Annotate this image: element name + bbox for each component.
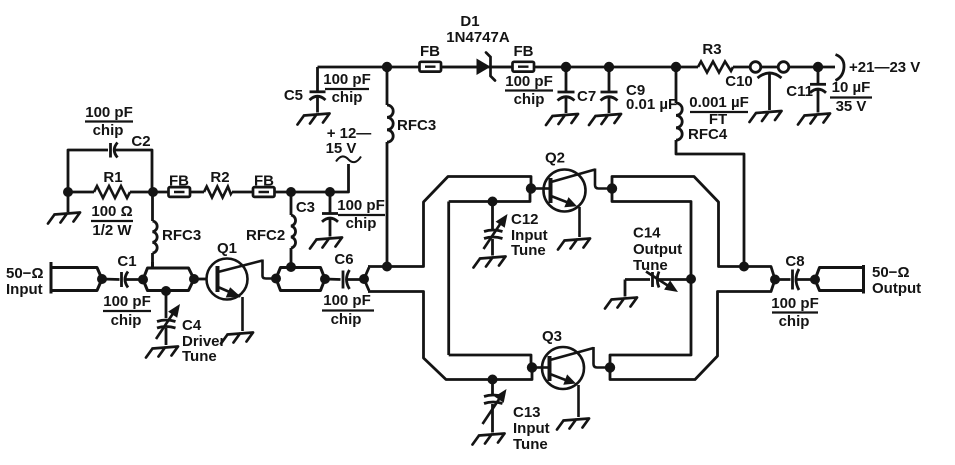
svg-text:FB: FB — [169, 173, 189, 190]
svg-text:100 pF: 100 pF — [771, 295, 819, 312]
svg-text:FB: FB — [254, 173, 274, 190]
svg-text:D1: D1 — [460, 13, 479, 30]
svg-text:chip: chip — [111, 312, 142, 329]
svg-text:Q2: Q2 — [545, 150, 565, 167]
svg-text:100 pF: 100 pF — [505, 73, 553, 90]
svg-text:1N4747A: 1N4747A — [446, 29, 510, 46]
svg-text:50−Ω: 50−Ω — [6, 265, 43, 282]
svg-text:Tune: Tune — [633, 257, 668, 274]
svg-text:C5: C5 — [284, 87, 303, 104]
svg-text:10 µF: 10 µF — [832, 79, 871, 96]
svg-text:chip: chip — [93, 122, 124, 139]
svg-text:100 pF: 100 pF — [337, 197, 385, 214]
svg-text:C11: C11 — [786, 83, 813, 100]
svg-text:C10: C10 — [725, 73, 753, 90]
svg-text:Output: Output — [872, 280, 921, 297]
svg-text:50−Ω: 50−Ω — [872, 264, 909, 281]
svg-text:35 V: 35 V — [836, 98, 867, 115]
svg-text:C12: C12 — [511, 211, 539, 228]
svg-text:C1: C1 — [117, 253, 136, 270]
svg-text:Input: Input — [6, 281, 43, 298]
svg-text:C6: C6 — [334, 251, 353, 268]
svg-text:+21—23 V: +21—23 V — [849, 59, 920, 76]
svg-text:chip: chip — [331, 311, 362, 328]
svg-text:Tune: Tune — [182, 348, 217, 365]
svg-text:R2: R2 — [210, 169, 229, 186]
svg-text:chip: chip — [332, 89, 363, 106]
svg-text:100 Ω: 100 Ω — [91, 203, 132, 220]
svg-text:100 pF: 100 pF — [85, 104, 133, 121]
svg-text:0.01 µF: 0.01 µF — [626, 96, 677, 113]
svg-text:Output: Output — [633, 241, 682, 258]
svg-text:15 V: 15 V — [326, 140, 357, 157]
svg-text:100 pF: 100 pF — [323, 71, 371, 88]
svg-text:C14: C14 — [633, 225, 661, 242]
svg-text:Q1: Q1 — [217, 240, 237, 257]
svg-text:100 pF: 100 pF — [323, 292, 371, 309]
svg-text:R1: R1 — [103, 169, 122, 186]
svg-text:R3: R3 — [702, 41, 721, 58]
svg-text:chip: chip — [514, 91, 545, 108]
svg-text:0.001 µF: 0.001 µF — [689, 94, 749, 111]
svg-text:Input: Input — [513, 420, 550, 437]
svg-text:1/2 W: 1/2 W — [92, 222, 132, 239]
svg-text:RFC4: RFC4 — [688, 126, 728, 143]
svg-text:Tune: Tune — [513, 436, 548, 453]
svg-text:100 pF: 100 pF — [103, 293, 151, 310]
svg-text:RFC2: RFC2 — [246, 227, 285, 244]
svg-text:C2: C2 — [131, 133, 150, 150]
svg-text:Q3: Q3 — [542, 328, 562, 345]
svg-text:Tune: Tune — [511, 242, 546, 259]
svg-text:chip: chip — [346, 215, 377, 232]
svg-text:RFC3: RFC3 — [397, 117, 436, 134]
svg-text:C13: C13 — [513, 404, 541, 421]
svg-text:FB: FB — [514, 43, 534, 60]
svg-text:RFC3: RFC3 — [162, 227, 201, 244]
svg-text:C3: C3 — [296, 199, 315, 216]
svg-text:C4: C4 — [182, 317, 202, 334]
svg-text:C8: C8 — [785, 253, 804, 270]
svg-text:chip: chip — [779, 313, 810, 330]
svg-text:C7: C7 — [577, 88, 596, 105]
svg-text:FB: FB — [420, 43, 440, 60]
